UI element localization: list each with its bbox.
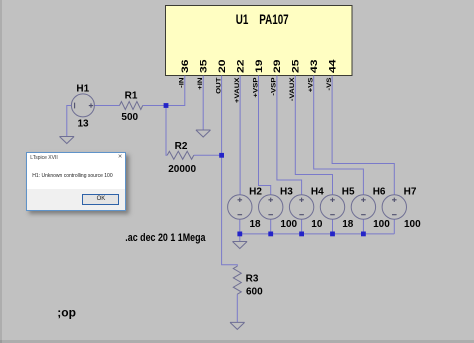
svg-text:H4: H4 <box>311 186 324 197</box>
svg-text:-VAUX: -VAUX <box>289 77 296 101</box>
svg-text:+VSP: +VSP <box>252 77 259 97</box>
svg-text:-VS: -VS <box>325 77 332 90</box>
svg-text:+VAUX: +VAUX <box>233 77 240 103</box>
svg-text:H2: H2 <box>249 186 262 197</box>
svg-text:22: 22 <box>236 59 246 73</box>
svg-text:H7: H7 <box>404 186 417 197</box>
svg-text:R2: R2 <box>175 141 188 152</box>
svg-text:500: 500 <box>121 112 138 123</box>
svg-text:H3: H3 <box>280 186 293 197</box>
svg-text:18: 18 <box>342 219 354 230</box>
svg-text:43: 43 <box>309 59 319 73</box>
svg-text:10: 10 <box>311 219 323 230</box>
svg-text:H6: H6 <box>373 186 386 197</box>
svg-text:-VSP: -VSP <box>270 77 277 95</box>
svg-text:H5: H5 <box>342 186 355 197</box>
svg-text:20000: 20000 <box>168 164 196 175</box>
svg-text:R3: R3 <box>246 273 259 284</box>
svg-text:600: 600 <box>246 286 263 297</box>
svg-text:OUT: OUT <box>215 77 222 94</box>
svg-text:25: 25 <box>291 59 301 73</box>
svg-text:35: 35 <box>199 59 209 73</box>
svg-text:-IN: -IN <box>178 78 185 88</box>
svg-text:20: 20 <box>217 59 227 73</box>
svg-text:100: 100 <box>404 219 421 230</box>
svg-text:U1 PA107: U1 PA107 <box>236 12 289 28</box>
svg-text:13: 13 <box>78 119 90 130</box>
svg-text:36: 36 <box>180 59 190 73</box>
svg-text:44: 44 <box>328 59 338 73</box>
svg-text:;op: ;op <box>57 306 76 320</box>
svg-text:+VS: +VS <box>307 77 314 92</box>
svg-text:100: 100 <box>373 219 390 230</box>
svg-text:19: 19 <box>254 59 264 73</box>
svg-text:100: 100 <box>280 219 297 230</box>
svg-text:18: 18 <box>250 219 262 230</box>
svg-text:R1: R1 <box>125 90 138 101</box>
svg-text:.ac dec 20 1 1Mega: .ac dec 20 1 1Mega <box>125 232 206 244</box>
svg-text:H1: H1 <box>76 84 89 95</box>
svg-text:29: 29 <box>273 59 283 73</box>
svg-text:+IN: +IN <box>197 78 204 90</box>
